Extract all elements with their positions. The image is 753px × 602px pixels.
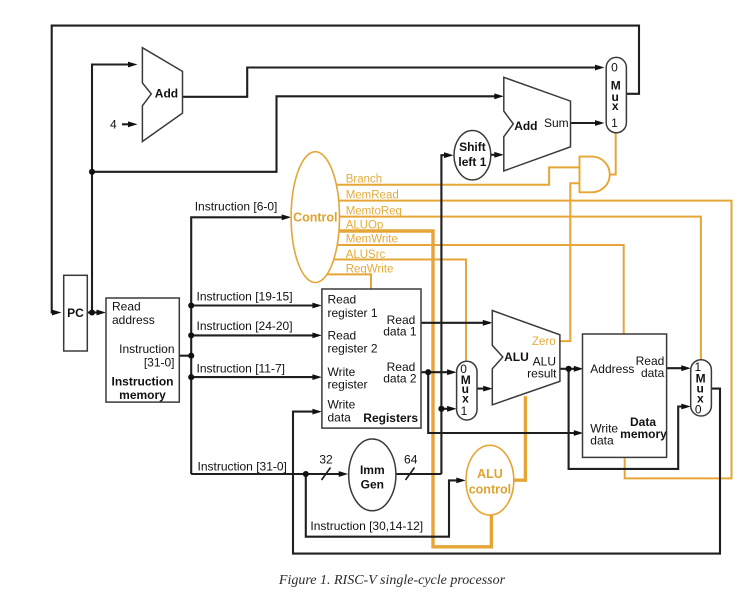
svg-text:left 1: left 1 — [458, 155, 486, 169]
mux PCSrc (top right) — [606, 57, 626, 132]
svg-text:ALU: ALU — [477, 467, 503, 481]
svg-text:1: 1 — [461, 404, 468, 418]
wire Instruction[31-0] to Imm Gen — [191, 473, 345, 475]
wire Zero to AND gate — [560, 183, 580, 341]
wire MemtoReg to right mux select — [340, 217, 701, 360]
wire Instruction[11-7] to Write register — [191, 376, 318, 378]
wire Add output PC+4 to top mux input 0 — [183, 68, 602, 97]
svg-text:4: 4 — [110, 117, 117, 131]
svg-text:register: register — [328, 378, 368, 392]
svg-text:data: data — [328, 411, 352, 425]
svg-text:Gen: Gen — [361, 478, 384, 492]
svg-text:RegWrite: RegWrite — [346, 264, 394, 276]
node PC output junction — [89, 309, 95, 315]
svg-text:Write: Write — [328, 398, 356, 412]
node read data 2 tap — [425, 369, 431, 375]
wire Read data 1 to ALU input — [421, 322, 490, 324]
wire ALU result down to right mux input 0 — [569, 369, 687, 469]
register file Registers — [322, 289, 421, 428]
svg-text:Zero: Zero — [532, 336, 556, 348]
node ALU result tap — [566, 366, 572, 372]
svg-text:Instruction [31-0]: Instruction [31-0] — [198, 460, 287, 474]
svg-text:Instruction [11-7]: Instruction [11-7] — [197, 362, 286, 376]
svg-text:MemWrite: MemWrite — [346, 234, 398, 246]
svg-text:ALUOp: ALUOp — [346, 220, 384, 232]
node immediate tap — [438, 406, 444, 412]
wire ALUSrc mux output to ALU input — [477, 388, 489, 390]
wire immediate to ALUSrc mux input 1 — [441, 408, 453, 410]
node bus tap 11-7 — [188, 374, 194, 380]
wire Imm Gen output to immediate vertical — [396, 473, 442, 475]
svg-text:Instruction: Instruction — [119, 342, 174, 356]
svg-text:Add: Add — [155, 87, 178, 101]
svg-text:Figure 1. RISC-V single-cycle: Figure 1. RISC-V single-cycle processor — [278, 573, 506, 588]
wire MemWrite to data memory top — [337, 245, 623, 334]
wire ALU result to data memory Address — [560, 368, 580, 370]
mux ALUSrc — [457, 361, 477, 420]
svg-text:Branch: Branch — [346, 174, 382, 186]
svg-text:Shift: Shift — [459, 140, 486, 154]
wire PC to instruction memory read address — [87, 311, 102, 313]
node bus instruction out — [188, 353, 194, 359]
wire Read data 2 to ALUSrc mux input 0 — [421, 371, 453, 373]
component shapes — [64, 48, 712, 511]
svg-text:Instruction [6-0]: Instruction [6-0] — [195, 200, 278, 214]
label mux MemtoReg — [694, 360, 705, 416]
svg-text:Read: Read — [112, 300, 141, 314]
svg-text:register 1: register 1 — [328, 306, 378, 320]
svg-text:MemtoReg: MemtoReg — [346, 206, 402, 218]
mux MemtoReg (right) — [691, 360, 712, 416]
svg-text:Instruction: Instruction — [112, 375, 174, 389]
adder Add Sum (branch target) — [504, 77, 571, 171]
wire constant 4 into Add — [122, 123, 134, 125]
wire immediate up to Shift left 1 — [441, 155, 448, 474]
oval Control — [291, 152, 339, 283]
svg-text:address: address — [112, 313, 155, 327]
wire instruction memory output to bus — [179, 355, 191, 357]
wire Instruction[19-15] to Read register 1 — [191, 304, 318, 306]
arrowheads — [52, 62, 691, 484]
wire ALUSrc to ALUSrc mux select — [333, 260, 466, 362]
svg-text:Instruction [24-20]: Instruction [24-20] — [197, 319, 293, 333]
gate AND (branch) — [580, 157, 610, 193]
wire Branch to AND gate — [336, 167, 579, 184]
wire Read data 2 tap to data memory Write data — [428, 372, 579, 433]
svg-text:Address: Address — [590, 362, 634, 376]
wire ALU control output to ALU (thick) — [514, 396, 526, 480]
svg-text:Sum: Sum — [544, 116, 569, 130]
wire Shift left 1 to branch adder — [491, 154, 500, 156]
svg-text:32: 32 — [319, 453, 333, 467]
svg-text:x: x — [612, 99, 619, 113]
svg-text:PC: PC — [67, 306, 84, 320]
memory Instruction memory — [106, 298, 179, 402]
wire ALUOp to ALU control (thick) — [339, 231, 492, 547]
svg-text:data: data — [590, 434, 614, 448]
node bus tap 19-15 — [188, 302, 194, 308]
svg-text:ALU: ALU — [504, 350, 529, 364]
wire PC up to Add (PC+4) — [92, 65, 134, 313]
node bus tap 24-20 — [188, 332, 194, 338]
svg-text:data 2: data 2 — [383, 372, 417, 386]
wire AND output to top mux select — [610, 133, 616, 175]
svg-text:0: 0 — [695, 403, 702, 417]
svg-text:64: 64 — [404, 453, 418, 467]
wire MemRead to data memory bottom — [339, 201, 732, 479]
label mux ALUSrc — [460, 362, 470, 418]
oval Shift left 1 — [454, 131, 491, 180]
svg-text:Read: Read — [328, 329, 357, 343]
svg-text:Control: Control — [293, 211, 337, 225]
svg-text:Instruction [19-15]: Instruction [19-15] — [197, 290, 293, 304]
svg-text:result: result — [527, 367, 557, 381]
black wires — [52, 26, 720, 554]
gold control wires — [327, 133, 732, 547]
wire PC-feedback loop from top mux output to PC input — [52, 26, 639, 313]
svg-text:1: 1 — [611, 116, 618, 130]
wire RegWrite to Registers — [327, 274, 371, 289]
svg-text:MemRead: MemRead — [346, 190, 399, 202]
wire data memory Read data to right mux input 1 — [666, 367, 687, 369]
svg-text:ALUSrc: ALUSrc — [346, 249, 386, 261]
svg-text:memory: memory — [119, 388, 166, 402]
svg-text:Registers: Registers — [363, 411, 418, 425]
svg-text:Instruction [30,14-12]: Instruction [30,14-12] — [310, 519, 423, 533]
svg-text:control: control — [469, 483, 511, 497]
svg-text:data 1: data 1 — [383, 325, 417, 339]
register PC — [64, 275, 88, 351]
svg-text:register 2: register 2 — [328, 342, 378, 356]
label mux PCSrc — [611, 61, 621, 130]
wire instruction bus vertical — [191, 217, 287, 474]
svg-text:Read: Read — [328, 293, 357, 307]
svg-text:Imm: Imm — [360, 463, 385, 477]
memory Data memory — [583, 334, 667, 457]
wire PC tap to branch adder — [92, 96, 500, 172]
wire Instruction[24-20] to Read register 2 — [191, 334, 318, 336]
slash 64-bit width mark — [406, 468, 415, 481]
svg-text:0: 0 — [611, 61, 618, 75]
node PC branch-adder tap — [89, 169, 95, 175]
ALU — [492, 311, 560, 405]
svg-text:[31-0]: [31-0] — [144, 356, 175, 370]
adder Add (PC+4) — [142, 48, 182, 142]
wire Instruction[30,14-12] to ALU control — [306, 474, 462, 537]
wire write-back from right mux output to Registers Write data — [293, 389, 720, 554]
oval ALU control — [466, 445, 514, 515]
node imm-gen input tap — [303, 471, 309, 477]
svg-text:memory: memory — [620, 427, 667, 441]
slash 32-bit width mark — [322, 468, 331, 481]
svg-text:data: data — [641, 366, 665, 380]
oval Imm Gen — [349, 439, 396, 511]
wire branch adder Sum to top mux input 1 — [570, 122, 601, 124]
svg-text:Add: Add — [514, 119, 537, 133]
